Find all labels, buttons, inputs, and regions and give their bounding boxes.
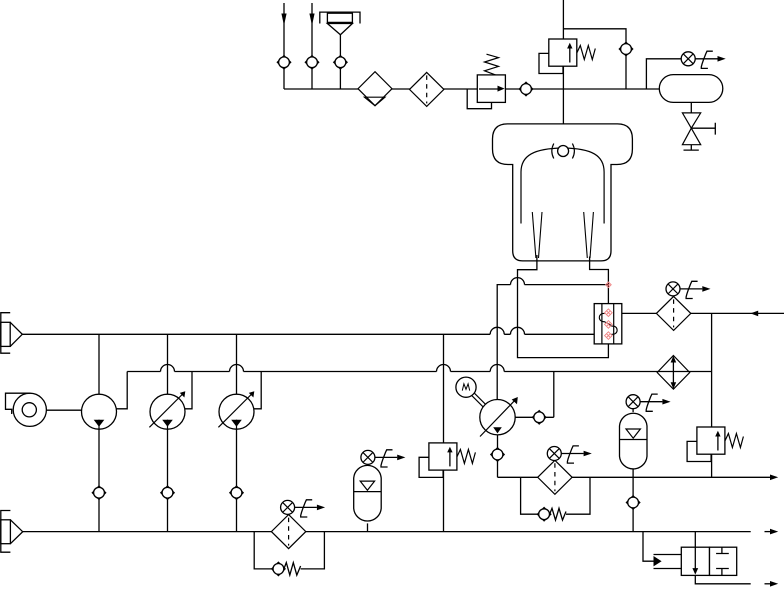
wire: relief bypass branch bbox=[563, 29, 626, 89]
wire: accumulator3 bottom stub bbox=[367, 523, 369, 531]
wire: directional valve outlet bbox=[695, 575, 750, 583]
filter F3 on return line bbox=[271, 515, 305, 549]
accumulator 3 bbox=[354, 465, 382, 521]
wire: pump2 outlet riser bbox=[185, 372, 192, 409]
check valve pump3 drain bbox=[230, 486, 244, 500]
check valve filter3 bypass bbox=[272, 562, 286, 576]
pump P2 variable bbox=[150, 394, 185, 429]
wire: accumulator drain stub bbox=[690, 102, 692, 113]
wire: exchanger inlet line bbox=[622, 312, 657, 314]
pressure gauge on accumulator 3 bbox=[361, 450, 406, 467]
pump P2 variable arrow bbox=[149, 391, 185, 427]
check valve under accumulator 2 bbox=[626, 496, 640, 510]
wire: inlet drop line 1 bbox=[283, 3, 285, 89]
pump P3 variable bbox=[219, 394, 254, 429]
wire: tank return line 4 bbox=[23, 531, 751, 533]
wire: pilot line to directional valve bbox=[643, 532, 654, 562]
electric motor M bbox=[456, 377, 487, 408]
wire: pump4 outlet riser bbox=[515, 372, 554, 418]
wire: drain valve outlet bbox=[684, 145, 699, 150]
arrow: line4 end arrowhead bbox=[765, 531, 771, 533]
breather funnel bbox=[320, 12, 360, 35]
wire: pump1 drain to tank line bbox=[98, 429, 100, 531]
wire: filter3 bypass loop bbox=[254, 532, 324, 569]
flange connector left bottom bbox=[1, 511, 23, 553]
arrow: valve outlet end arrowhead bbox=[765, 583, 771, 585]
drain shutoff valve bbox=[682, 113, 700, 145]
wire: filter3 bypass spring bbox=[284, 563, 301, 576]
wire: gauge branch top right bbox=[646, 59, 682, 89]
air cooler diamond bbox=[657, 356, 690, 390]
directional valve pilot bbox=[654, 555, 682, 569]
air receiver accumulator bbox=[659, 75, 723, 103]
filter F2 on line3 bbox=[538, 460, 572, 494]
blower / fan symbol bbox=[6, 393, 47, 426]
arrow: line3 end arrowhead bbox=[770, 475, 778, 481]
directional valve body bbox=[681, 547, 736, 575]
heat exchanger bbox=[594, 304, 622, 344]
wire: pump3 suction bbox=[236, 334, 238, 394]
wire: pump1 outlet riser bbox=[116, 372, 127, 409]
tank left suction strainer bbox=[532, 212, 542, 258]
red junction marker bbox=[606, 282, 612, 288]
wire: exchanger outlet to pump 4 bbox=[497, 285, 608, 400]
pump P3 variable arrow bbox=[218, 391, 254, 427]
tank inner baffle dome bbox=[521, 148, 604, 224]
wire: hops on header line 1 bbox=[490, 327, 524, 334]
wire: pump2 drain to tank line bbox=[167, 429, 169, 531]
wire: tank left suction loop bbox=[518, 255, 609, 358]
wire: pump1 suction bbox=[98, 334, 100, 394]
wire: directional valve riser bbox=[694, 532, 696, 548]
check valve pump4 outlet bbox=[532, 411, 546, 425]
wire: relief main vertical to tank bbox=[562, 0, 564, 124]
wire: top header line bbox=[284, 88, 659, 90]
wire: right distribution vertical bbox=[711, 313, 713, 477]
check valve under funnel bbox=[334, 56, 348, 70]
filter F1 after exchanger bbox=[656, 296, 690, 330]
wire: return line from right bbox=[691, 312, 784, 314]
wire: drain valve handle bbox=[691, 123, 715, 135]
oil tank outline bbox=[493, 124, 633, 261]
flange connector left top bbox=[1, 313, 23, 354]
check valve pump2 drain bbox=[161, 486, 175, 500]
filter D2 on top header bbox=[410, 72, 444, 106]
pump P4 variable motor driven bbox=[480, 400, 515, 435]
relief valve U3 right bbox=[687, 427, 743, 462]
wire: pressure header line 2 bbox=[127, 371, 711, 373]
wire: accumulator2 connections bbox=[632, 402, 634, 532]
tank right return nozzle bbox=[584, 212, 594, 258]
wire: filter2 bypass loop bbox=[521, 477, 590, 514]
wire: filter2 bypass spring bbox=[550, 508, 566, 520]
relief valve U1 top bbox=[539, 39, 595, 74]
wire: blower to pump1 bbox=[46, 409, 81, 411]
red port marker 2 bbox=[605, 321, 613, 329]
wire: hops on header line 2 bbox=[161, 365, 505, 372]
wire: tank right return loop bbox=[590, 257, 609, 304]
wire: pressure line 3 bbox=[498, 476, 771, 478]
pressure reducing valve bbox=[467, 54, 505, 108]
pressure gauge on filter F3 bbox=[281, 500, 326, 517]
wire: pump2 suction bbox=[167, 334, 169, 394]
check valve on relief bypass bbox=[619, 42, 633, 56]
tank level indicator (O) bbox=[552, 144, 575, 159]
pump P1 fixed bbox=[82, 394, 117, 429]
wire: pump3 drain to tank line bbox=[236, 429, 238, 531]
wire: relief 2 drop line bbox=[443, 334, 445, 531]
red port marker 3 bbox=[605, 332, 613, 340]
check valve on inlet 1 bbox=[277, 56, 291, 70]
pressure gauge G1 bbox=[681, 51, 726, 68]
pressure gauge on filter F2 bbox=[547, 446, 592, 463]
wire: suction header line 1 bbox=[22, 333, 594, 335]
wire: inlet drop line 2 bbox=[311, 3, 313, 89]
check valve pump4 discharge bbox=[491, 448, 505, 462]
check valve filter2 bypass bbox=[537, 507, 551, 521]
wire: filler funnel drop line bbox=[339, 35, 341, 89]
separator diamond bbox=[358, 72, 392, 106]
check valve after reducing valve bbox=[519, 82, 533, 96]
arrow: inlet arrowhead 2 bbox=[309, 14, 314, 26]
pump P4 variable arrow bbox=[480, 397, 518, 437]
red port marker 1 bbox=[605, 309, 613, 317]
arrow: return line arrowhead (pointing left) bbox=[750, 311, 758, 317]
wire: hop on exchanger outlet bbox=[511, 278, 525, 285]
accumulator 2 bbox=[620, 413, 648, 469]
pressure gauge on accumulator 2 bbox=[626, 394, 671, 411]
relief valve U2 left bbox=[419, 443, 475, 478]
wire: pump4 discharge down bbox=[497, 435, 499, 477]
check valve on inlet 2 bbox=[305, 56, 319, 70]
wire: pump3 outlet riser bbox=[254, 372, 261, 409]
pressure gauge on filter F1 bbox=[666, 281, 711, 298]
arrow: inlet arrowhead 1 bbox=[281, 14, 286, 26]
check valves on pump drains bbox=[92, 486, 106, 500]
